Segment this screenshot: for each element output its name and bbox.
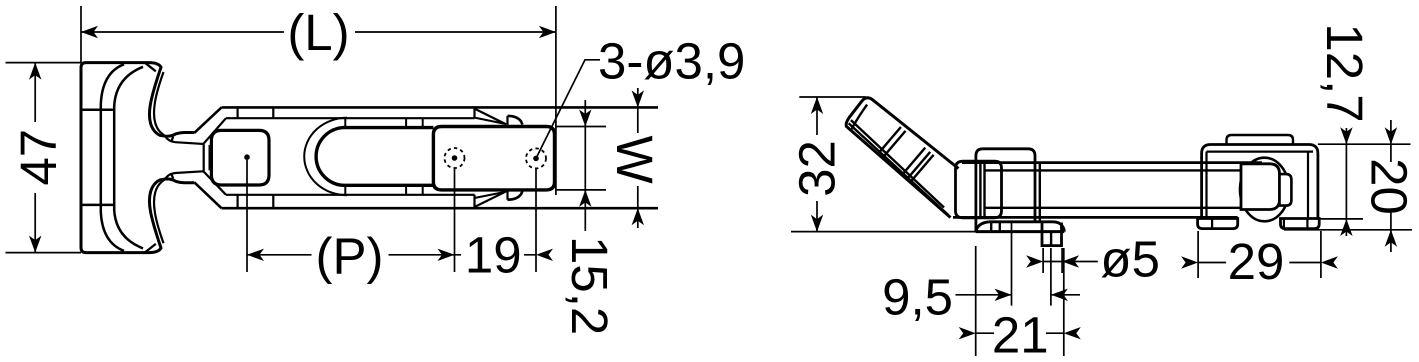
- svg-text:21: 21: [992, 307, 1049, 362]
- dimension 21 left arrow: [959, 327, 976, 339]
- dimension 15,2 bottom arrow: [579, 190, 591, 207]
- keeper inner right vertical: [1307, 152, 1309, 219]
- dimension 21 right arrow: [1064, 327, 1081, 339]
- dimension 12,7 bottom extension line: [1320, 218, 1363, 220]
- square hole center dot: [244, 154, 250, 160]
- dimension 20 line: [1390, 120, 1392, 252]
- dimension 29 line: [1198, 262, 1321, 264]
- arm end cap: [1241, 164, 1280, 210]
- dimension 32 bottom extension line: [791, 231, 976, 233]
- dimension (L) right arrow: [539, 26, 556, 38]
- grip mold line (bottom): [81, 204, 114, 207]
- grip mold line (top): [81, 108, 114, 111]
- slot chamfer contour: [304, 118, 347, 195]
- dimension 47 bottom arrow: [29, 236, 41, 253]
- slot band ticks (bottom): [345, 185, 422, 195]
- body left tip chamfer (bottom): [194, 182, 221, 208]
- svg-text:3-ø3,9: 3-ø3,9: [598, 32, 745, 89]
- leader line for 3-ø3,9: [536, 60, 600, 159]
- mounting foot base line: [976, 230, 1064, 233]
- mounting foot pad ticks: [991, 222, 1000, 232]
- dimension 15,2 top arrow: [579, 110, 591, 127]
- body inner chamfer (top): [203, 118, 226, 144]
- keeper right foot ticks: [1284, 219, 1308, 229]
- body inner chamfer (bottom): [203, 171, 226, 195]
- dimension (P) line: [247, 254, 455, 256]
- extension line foot left edge: [975, 246, 977, 356]
- svg-text:W: W: [606, 135, 663, 183]
- dimension 20 bottom arrow: [1385, 230, 1397, 247]
- catch roller ellipse: [1240, 158, 1289, 222]
- svg-text:47: 47: [10, 129, 67, 186]
- body top edge (continues as W extension line): [222, 106, 659, 109]
- body inner band line (bottom): [226, 194, 475, 196]
- dimension W bottom arrow: [632, 208, 644, 225]
- keeper inner top line: [1207, 151, 1314, 153]
- dimension (L) left arrow: [81, 26, 98, 38]
- slot band ticks (top): [345, 118, 422, 128]
- extension line 21 right: [1063, 248, 1065, 356]
- dimension (P) right arrow: [438, 249, 455, 261]
- dimension 9,5 line: [956, 294, 1081, 296]
- dimension 12,7 bottom arrow: [1340, 219, 1352, 236]
- svg-text:29: 29: [1228, 233, 1285, 290]
- body right end tick 2 (top): [506, 116, 508, 125]
- dimension 47 bottom extension line: [6, 252, 82, 254]
- svg-text:20: 20: [1361, 158, 1418, 215]
- body right end fold tick (bottom): [473, 195, 475, 208]
- dimension o5 right extension line: [1061, 248, 1063, 273]
- slot outline: [316, 128, 433, 186]
- dimension 12,7 top arrow: [1340, 127, 1352, 144]
- extension line from hole 2 center: [535, 169, 537, 272]
- locating pin mid line: [1050, 232, 1052, 246]
- dimension 9,5 left arrow: [995, 289, 1012, 301]
- dimension (L) line: [81, 31, 556, 33]
- hole 2 center dot: [533, 156, 539, 162]
- square pivot hole: [211, 130, 269, 185]
- body right end wedge (top): [475, 109, 507, 125]
- keeper bracket outline: [1202, 145, 1318, 219]
- body right end tick 2 (bottom): [506, 191, 508, 200]
- neck vertical: [209, 145, 212, 170]
- arm end tab: [1280, 174, 1292, 206]
- mounting foot pad top edge: [989, 222, 1064, 232]
- lever bar inner line 2: [849, 123, 948, 215]
- dimension W line: [637, 88, 639, 228]
- svg-text:32: 32: [789, 140, 846, 197]
- dimension 29 right arrow: [1321, 256, 1338, 268]
- hidden hole circle 1 (dashed): [445, 148, 465, 168]
- extension line 9,5 left: [1011, 223, 1013, 306]
- extension line from square hole center: [246, 160, 248, 272]
- svg-text:19: 19: [465, 227, 522, 284]
- locating pin (below base): [1042, 222, 1062, 246]
- grip hook inner contour with neck: [154, 72, 204, 243]
- body right end wedge (bottom): [475, 191, 507, 207]
- body inner band line (top): [226, 117, 475, 119]
- lever bar cross ticks group 2: [903, 148, 933, 181]
- extension line from hole 1 center: [454, 169, 456, 273]
- body left tip chamfer (top): [194, 107, 221, 132]
- dimension o5 line: [1043, 261, 1098, 263]
- grip ridge curve 2: [114, 67, 143, 249]
- grip ridge curve 1: [101, 64, 124, 251]
- lever bar tip inner line: [852, 105, 868, 130]
- dimension 12,7 line: [1345, 128, 1347, 236]
- svg-text:9,5: 9,5: [882, 268, 953, 325]
- hook arm tick (bottom): [171, 174, 173, 179]
- svg-text:(P): (P): [316, 227, 384, 284]
- pivot boss outline: [956, 161, 1002, 218]
- pivot block right vertical: [1039, 164, 1041, 222]
- grip corner facet (top): [146, 63, 156, 71]
- dimension 32 line: [816, 97, 818, 232]
- body band ticks (top): [238, 107, 274, 118]
- dimension 29 left extension line: [1197, 231, 1199, 278]
- lever bar cross ticks group 1: [879, 127, 906, 157]
- dimension 20 bottom extension line: [1284, 229, 1412, 231]
- svg-text:(L): (L): [287, 4, 349, 61]
- keeper right foot: [1281, 219, 1320, 229]
- dimension o5 left extension line: [1042, 248, 1044, 273]
- body band ticks (bottom): [238, 195, 274, 208]
- arm bottom outer line: [953, 216, 1238, 219]
- body right end fold tick (top): [473, 107, 475, 118]
- arm top outer line: [962, 161, 1262, 164]
- dimension 15,2 bottom extension line: [556, 189, 606, 191]
- keeper plate: [433, 127, 554, 190]
- grip corner facet (bottom): [146, 244, 156, 252]
- arm bottom inner line: [985, 207, 1242, 209]
- lever bar inner line 1: [851, 120, 944, 207]
- body bottom edge (continues as W extension line): [222, 207, 659, 210]
- dimension 19 line: [455, 254, 537, 256]
- svg-text:12,7: 12,7: [1316, 23, 1373, 122]
- dimension 29 right extension line: [1320, 231, 1322, 278]
- dimension o5 left arrow: [1026, 255, 1043, 267]
- keeper left foot: [1198, 219, 1238, 229]
- dimension 19 right arrow: [536, 249, 553, 261]
- dimension 32 bottom arrow: [811, 215, 823, 232]
- dimension 21 line: [976, 332, 1064, 334]
- extension line 9,5 right: [1050, 248, 1052, 306]
- dimension 47 top extension line: [6, 62, 82, 64]
- dimension 32 top extension line: [799, 96, 866, 98]
- dimension 20 top arrow: [1385, 127, 1397, 144]
- svg-text:ø5: ø5: [1100, 231, 1160, 288]
- lever bar outline (side view): [846, 98, 958, 218]
- keeper raised tab: [1227, 135, 1294, 145]
- svg-text:15,2: 15,2: [561, 236, 618, 335]
- dimension 47 line: [34, 63, 36, 253]
- mounting foot pad left corner: [976, 222, 989, 232]
- dimension (P) left arrow: [247, 249, 264, 261]
- dimension 32 top arrow: [811, 97, 823, 114]
- pivot boss inner verticals: [980, 161, 984, 218]
- keeper left foot tick: [1211, 219, 1213, 229]
- dimension (L) right extension line: [555, 6, 557, 195]
- dimension 15,2 top extension line: [556, 126, 606, 128]
- dimension o5 right arrow: [1062, 255, 1079, 267]
- dimension 15,2 line: [584, 100, 586, 231]
- dimension 9,5 right arrow: [1051, 289, 1068, 301]
- pivot block with knuckle top: [976, 149, 1035, 233]
- body right end curl (bottom): [508, 191, 523, 200]
- dimension 47 top arrow: [29, 63, 41, 80]
- dimension (L) left extension line: [80, 6, 82, 63]
- dimension 20 top extension line: [1318, 143, 1411, 145]
- hook arm tick (top): [171, 137, 173, 142]
- body right end curl (top): [508, 116, 523, 125]
- hidden hole circle 2 (dashed): [526, 148, 546, 168]
- grip handle outline (top view, left end): [81, 63, 194, 253]
- hole 1 center dot: [452, 155, 458, 161]
- keeper inner left vertical: [1205, 152, 1207, 219]
- dimension 29 left arrow: [1181, 256, 1198, 268]
- dimension W top arrow: [632, 90, 644, 107]
- arm top inner line: [985, 169, 1242, 171]
